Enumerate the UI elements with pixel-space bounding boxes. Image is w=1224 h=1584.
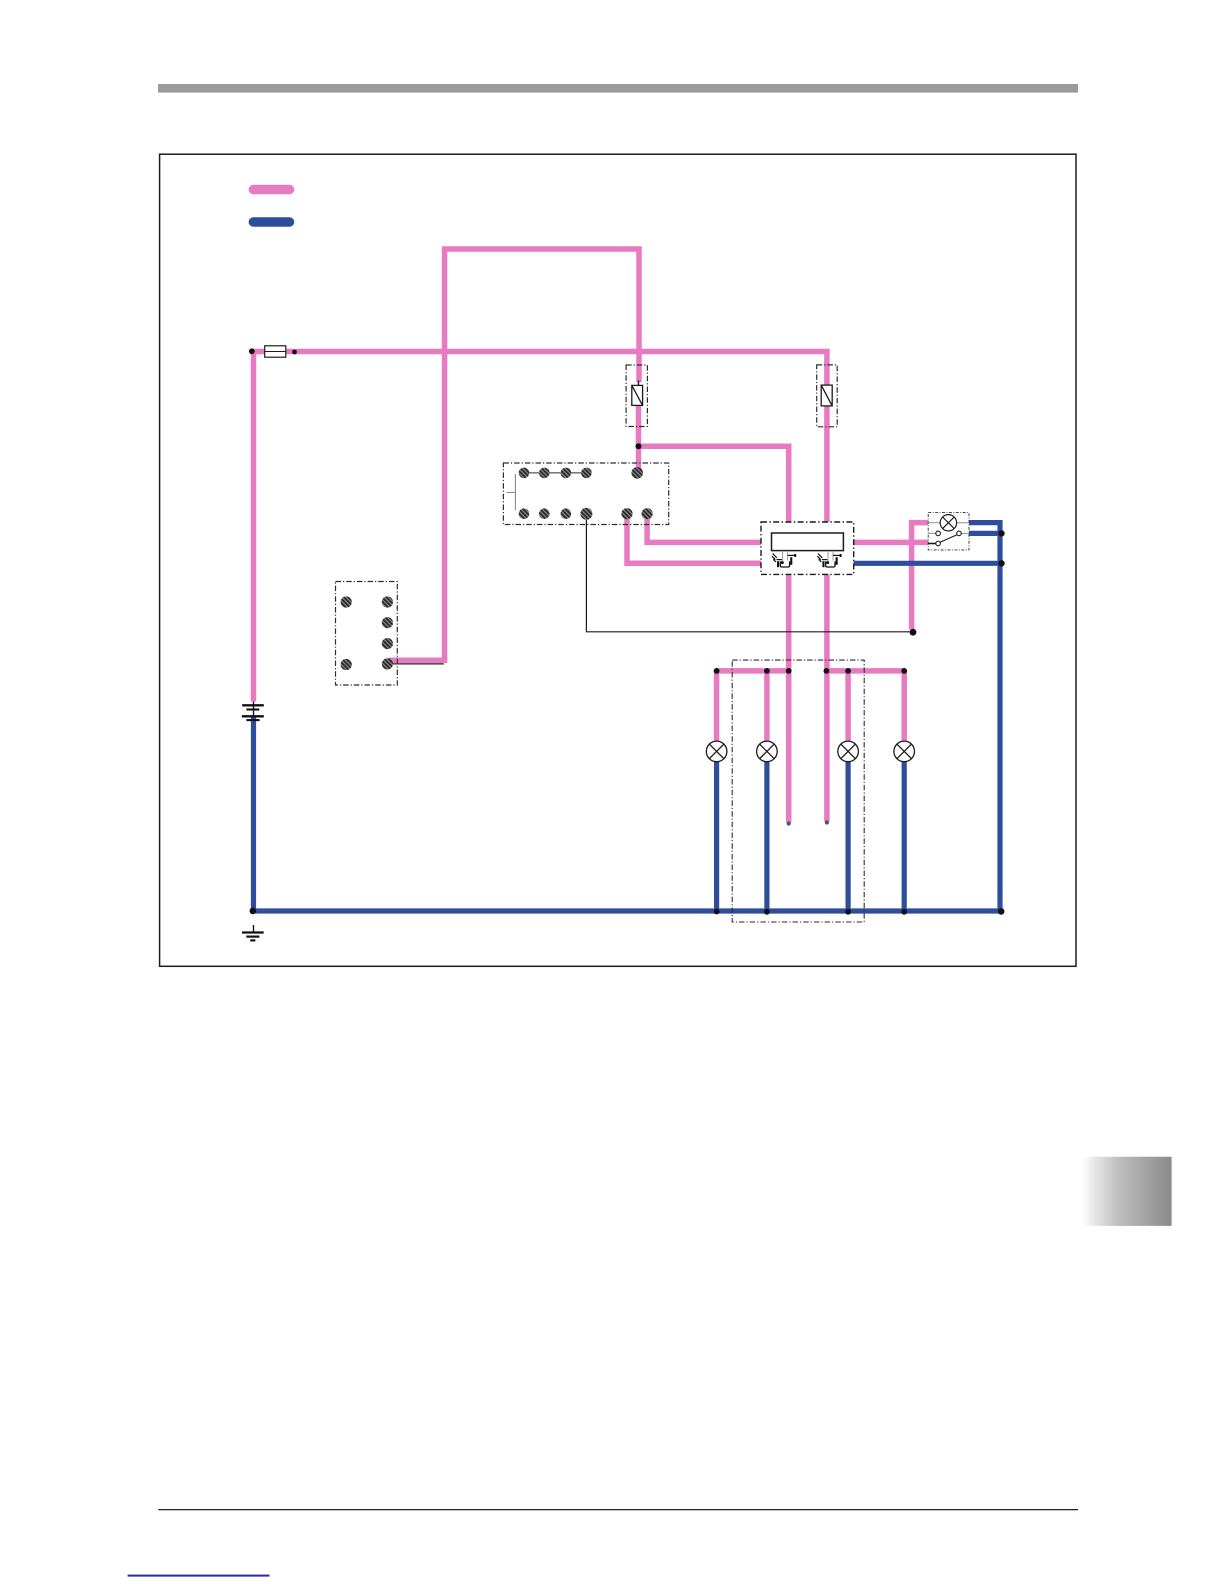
pin 3 bbox=[561, 468, 572, 479]
wire flasher out upper to combination switch bbox=[647, 515, 762, 542]
pin R bbox=[642, 508, 653, 519]
pin 4 bbox=[581, 468, 592, 479]
switch contact glyph L bbox=[772, 551, 796, 567]
lamp L2 rear left bbox=[757, 741, 778, 762]
pin B bbox=[631, 467, 643, 479]
wire fuse feed horizontal to right relay bbox=[251, 352, 827, 386]
switch contacts bbox=[928, 532, 936, 534]
diagram frame bbox=[160, 154, 1076, 966]
wire left lamp bus bbox=[717, 668, 789, 674]
wire hazard lamp feed stub bbox=[912, 523, 930, 544]
pin L bbox=[621, 508, 632, 519]
pin e bbox=[382, 638, 393, 649]
pin d bbox=[382, 617, 393, 628]
wire lamp3 ground bbox=[845, 761, 850, 911]
junction nodes bbox=[250, 443, 1005, 914]
wire battery- down to ground bus bbox=[254, 717, 1001, 912]
circuit breaker CB1 (left) bbox=[626, 365, 647, 427]
pin c bbox=[382, 596, 393, 607]
pin 6 bbox=[539, 508, 550, 519]
hazard switch with indicator lamp bbox=[928, 513, 969, 550]
footer rule bbox=[158, 1509, 1078, 1510]
lamp L3 front right bbox=[838, 741, 859, 762]
legend blue wire sample bbox=[249, 217, 295, 227]
combination switch (turn signal switch) bbox=[761, 522, 854, 574]
footer link underline bbox=[128, 1575, 270, 1577]
pin 1 bbox=[519, 468, 530, 479]
node battery ground tie bbox=[250, 908, 257, 915]
bracket bbox=[507, 474, 516, 510]
pin a bbox=[341, 596, 352, 607]
fuse F1 bbox=[265, 346, 286, 357]
wire flasher branch right and down through switch bbox=[639, 446, 789, 525]
ignition switch connector block bbox=[336, 582, 398, 686]
lamp L1 front left bbox=[706, 741, 727, 762]
wire flasher out lower to combination switch bbox=[627, 515, 762, 563]
node hazard contact ground tie bbox=[998, 530, 1004, 536]
wire left relay to flasher terminal bbox=[636, 404, 642, 470]
ground symbol bbox=[242, 925, 264, 940]
node combination switch ground tie bbox=[998, 560, 1004, 566]
wire ignition switch to top loop to left relay bbox=[389, 249, 639, 660]
wire lamp2 drop bbox=[764, 671, 770, 742]
wire right lamp bus bbox=[826, 668, 904, 674]
wire lamp2 ground bbox=[764, 761, 769, 911]
wire right relay down to switch bbox=[824, 406, 830, 525]
node lamp3 ground tie bbox=[845, 909, 851, 915]
pin b bbox=[341, 659, 352, 670]
node left bus end bbox=[714, 668, 720, 674]
wire hazard feed down to flasher sense bbox=[909, 542, 915, 629]
page side index tab bbox=[1078, 1157, 1171, 1226]
wire lamp4 ground bbox=[902, 761, 907, 911]
wire switch lower stub to hanging end bbox=[786, 572, 792, 823]
node lamp2 ground tie bbox=[764, 909, 770, 915]
indicator lamp bbox=[940, 515, 956, 531]
turn signal lamps dashed boundary bbox=[732, 660, 864, 922]
node right bus end bbox=[901, 668, 907, 674]
switch contact glyph R bbox=[817, 551, 841, 567]
switch blade bbox=[940, 535, 957, 543]
node hazard sense tie bbox=[910, 629, 917, 636]
node bus right end bbox=[998, 908, 1005, 915]
node lamp4 ground tie bbox=[901, 909, 907, 915]
node lamp3 tap bbox=[845, 668, 851, 674]
wire combination switch ground bbox=[852, 561, 1000, 566]
wire terminal link line bbox=[524, 472, 586, 474]
pin 2 bbox=[539, 468, 550, 479]
wire right switch stub to hanging end bbox=[824, 572, 830, 822]
wire end caps bbox=[787, 820, 829, 825]
node lamp2 tap bbox=[764, 668, 770, 674]
wire flasher sense thin lead bbox=[586, 517, 911, 632]
pin E bbox=[580, 508, 592, 520]
wire lamp1 drop bbox=[714, 671, 720, 742]
wire hazard lamp to right vertical ground bbox=[969, 523, 1001, 911]
wire lamp4 drop bbox=[901, 671, 907, 742]
connector bullet after fuse bbox=[292, 350, 297, 355]
lamp L4 rear right bbox=[894, 741, 915, 762]
circuit breaker CB2 (right) bbox=[817, 365, 838, 427]
turn signal relay connector block bbox=[503, 463, 668, 525]
node left bus vertical tie bbox=[786, 668, 792, 674]
page top gray bar bbox=[158, 84, 1078, 93]
legend pink wire sample bbox=[249, 185, 295, 195]
wire battery+ up to fuse bbox=[251, 352, 257, 702]
wire ignition thin lead bbox=[390, 663, 444, 665]
pin 7 bbox=[561, 508, 572, 519]
wire hazard switch contact to ground vertical bbox=[969, 531, 1001, 536]
pin 5 bbox=[519, 508, 530, 519]
wire combination switch to hazard switch bbox=[853, 540, 930, 546]
wire lamp1 ground bbox=[714, 761, 719, 911]
node relay output branch bbox=[636, 443, 642, 449]
battery BT1 bbox=[242, 702, 264, 721]
wire lamp3 drop bbox=[845, 671, 851, 742]
node right bus vertical tie bbox=[824, 668, 830, 674]
node lamp1 ground tie bbox=[714, 909, 720, 915]
pin f bbox=[382, 658, 393, 669]
node battery feed junction bbox=[249, 348, 255, 354]
